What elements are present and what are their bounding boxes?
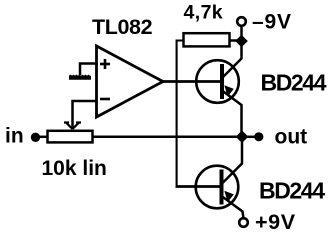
transistor Q1 emitter arrow (PNP) bbox=[224, 85, 234, 96]
transistor Q2 base bar bbox=[220, 170, 224, 205]
svg-text:in: in bbox=[5, 125, 24, 148]
transistor Q2 emitter arrow (PNP) bbox=[224, 191, 234, 202]
svg-text:4,7k: 4,7k bbox=[184, 1, 224, 23]
wire output net to Q2 base bbox=[176, 185, 221, 188]
wire out node down to Q2 collector bbox=[222, 141, 242, 184]
svg-text:BD244: BD244 bbox=[259, 178, 325, 204]
op-amp U1 TL082 triangle bbox=[97, 46, 164, 117]
wire in to potentiometer bbox=[36, 136, 48, 139]
label 10k lin bbox=[42, 157, 107, 180]
wire - input to potentiometer wiper bbox=[73, 101, 97, 128]
label BD244 bottom bbox=[259, 178, 325, 204]
node out junction bbox=[236, 130, 249, 143]
label in bbox=[5, 125, 24, 148]
svg-text:10k lin: 10k lin bbox=[42, 157, 107, 180]
svg-text:TL082: TL082 bbox=[92, 15, 153, 39]
label out bbox=[275, 126, 308, 149]
potentiometer wiper arrow bbox=[64, 123, 81, 130]
terminal -9V bbox=[237, 17, 246, 26]
svg-text:BD244: BD244 bbox=[261, 70, 327, 96]
wire resistor right lead to -9V node bbox=[230, 39, 242, 42]
label +9V bbox=[255, 210, 296, 234]
ground bbox=[69, 75, 91, 80]
terminal out bbox=[254, 132, 263, 141]
wire out node to out terminal bbox=[242, 136, 258, 139]
label -9V bbox=[252, 11, 292, 34]
op-amp - input symbol bbox=[100, 98, 110, 101]
transistor Q2 emitter line to +9V bbox=[222, 196, 244, 218]
wire + input to ground bbox=[80, 64, 97, 76]
svg-text:+9V: +9V bbox=[255, 210, 296, 234]
terminal +9V bbox=[239, 218, 248, 227]
resistor R1 body bbox=[184, 33, 230, 46]
node junction -9V/resistor/Q1 collector bbox=[235, 35, 248, 47]
transistor Q2 BD244 circle bbox=[196, 166, 239, 209]
label 4,7k bbox=[184, 1, 224, 23]
terminal in bbox=[31, 133, 40, 142]
wire potentiometer to out node bbox=[93, 136, 243, 139]
transistor Q1 base bar bbox=[220, 64, 224, 99]
svg-text:out: out bbox=[275, 126, 308, 149]
transistor Q1 BD244 circle bbox=[196, 60, 239, 103]
wire op-amp output to Q1 base bbox=[162, 80, 221, 83]
transistor Q1 emitter line to out rail bbox=[222, 91, 242, 133]
label BD244 top bbox=[261, 70, 327, 96]
wire -9V terminal down to node bbox=[240, 26, 243, 38]
svg-text:–9V: –9V bbox=[252, 11, 292, 34]
op-amp + input symbol bbox=[100, 59, 110, 69]
wire node down to Q1 collector bbox=[222, 45, 242, 78]
potentiometer P1 body bbox=[48, 131, 93, 143]
wire resistor left lead down to output net bbox=[177, 41, 184, 187]
label TL082 bbox=[92, 15, 153, 39]
